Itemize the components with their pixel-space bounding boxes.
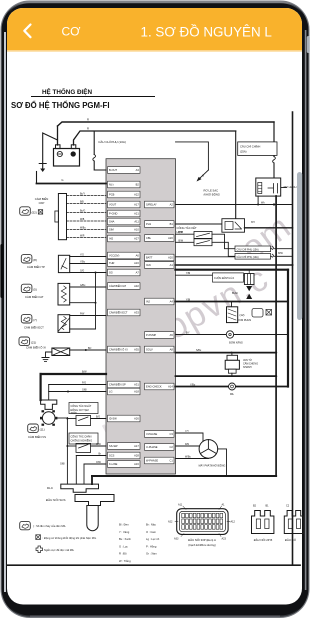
svg-text:(7): (7) — [33, 318, 37, 322]
svg-text:VAN TỪ: VAN TỪ — [243, 359, 252, 362]
svg-text:CẦM CHỪNG: CẦM CHỪNG — [243, 363, 258, 366]
svg-text:G/Bl: G/Bl — [82, 388, 87, 391]
svg-text:S/RELAY: S/RELAY — [146, 203, 157, 207]
svg-text:G/Bu: G/Bu — [80, 285, 86, 287]
svg-text:CẢM BIẾN TP: CẢM BIẾN TP — [27, 264, 45, 269]
svg-text:CẢM BIẾN ECT: CẢM BIẾN ECT — [24, 325, 44, 330]
svg-text:IGN: IGN — [146, 263, 151, 267]
svg-text:1. SƠ ĐỒ NGUYÊN L: 1. SƠ ĐỒ NGUYÊN L — [141, 25, 272, 40]
svg-text:LG: LG — [109, 390, 112, 394]
svg-text:N(-): N(-) — [109, 183, 114, 187]
svg-text:CƠ: CƠ — [62, 25, 82, 39]
svg-text:V-PHASE: V-PHASE — [146, 432, 158, 436]
svg-text:A12: A12 — [231, 521, 236, 524]
svg-text:W/Bu: W/Bu — [80, 228, 86, 230]
svg-text:CUỘN ĐÁNH LỬA: CUỘN ĐÁNH LỬA — [214, 277, 235, 280]
svg-text:C1: C1 — [169, 459, 173, 463]
svg-text:R : Đỏ: R : Đỏ — [119, 552, 127, 556]
svg-text:A26: A26 — [134, 417, 139, 421]
svg-text:THR: THR — [109, 261, 114, 265]
svg-text:(12): (12) — [240, 313, 245, 317]
svg-text:A3: A3 — [136, 168, 140, 172]
svg-text:SIM: SIM — [109, 228, 114, 232]
svg-text:R/N: R/N — [185, 443, 189, 446]
svg-text:Y/Bl: Y/Bl — [186, 298, 191, 301]
svg-text:S/Bu: S/Bu — [196, 349, 202, 352]
svg-text:) : Số lần nháy của đèn MIL: ) : Số lần nháy của đèn MIL — [33, 524, 66, 528]
svg-text:A20: A20 — [168, 256, 173, 260]
svg-text:CÔNG TẮC NGẮT: CÔNG TẮC NGẮT — [71, 405, 92, 408]
svg-text:CẦU CHÌ PHỤ (15A): CẦU CHÌ PHỤ (15A) — [237, 249, 259, 252]
svg-text:B/J: B/J — [88, 348, 91, 350]
svg-text:B/B: B/B — [80, 202, 84, 204]
svg-text:A2: A2 — [170, 203, 174, 207]
svg-text:W/R: W/R — [80, 236, 85, 238]
svg-text:A23: A23 — [222, 538, 227, 541]
svg-text:B/W: B/W — [278, 252, 283, 255]
svg-text:SS-SW: SS-SW — [109, 444, 118, 448]
svg-text:SG: SG — [109, 271, 113, 275]
svg-text:CẦU CHÌ PHỤ (10A): CẦU CHÌ PHỤ (10A) — [98, 140, 126, 144]
svg-text:(11): (11) — [40, 428, 45, 432]
svg-text:SƠ ĐỔ HỆ THỐNG PGM-FI: SƠ ĐỔ HỆ THỐNG PGM-FI — [11, 100, 109, 110]
svg-text:CHỐNG NGHIÊNG: CHỐNG NGHIÊNG — [71, 439, 93, 442]
svg-text:U-PHASE: U-PHASE — [146, 445, 158, 449]
svg-text:CÔNG TẮC CHÂN: CÔNG TẮC CHÂN — [71, 435, 92, 438]
svg-text:Y : Vàng: Y : Vàng — [119, 530, 130, 534]
svg-text:ĐẦU NỐI SCS: ĐẦU NỐI SCS — [46, 497, 66, 502]
svg-text:A33: A33 — [174, 538, 179, 541]
svg-text:C3: C3 — [169, 432, 173, 436]
svg-text:Lg : Lục nh: Lg : Lục nh — [146, 537, 160, 541]
svg-text:CẢM BIẾN IAT: CẢM BIẾN IAT — [25, 294, 44, 299]
svg-text:A16: A16 — [134, 261, 139, 265]
svg-text:G/Bl: G/Bl — [60, 463, 65, 466]
svg-text:PCB: PCB — [109, 193, 115, 197]
svg-text:ID-SW: ID-SW — [109, 417, 117, 421]
svg-text:Y/Bu: Y/Bu — [80, 262, 86, 264]
svg-text:ĐẦU NỐI 33P (Đen) A: ĐẦU NỐI 33P (Đen) A — [188, 537, 216, 542]
svg-text:MIL: MIL — [230, 393, 235, 396]
svg-text:W-PHASE: W-PHASE — [146, 459, 158, 463]
svg-text:P : Hồng: P : Hồng — [146, 544, 157, 548]
svg-text:B/W: B/W — [179, 231, 184, 234]
svg-text:G : Lục: G : Lục — [119, 544, 128, 548]
svg-text:C2: C2 — [169, 445, 173, 449]
svg-text:DLC: DLC — [47, 486, 54, 490]
svg-text:KIM PHUN: KIM PHUN — [239, 318, 252, 322]
svg-text:A27: A27 — [134, 237, 139, 241]
svg-text:(Cạnh ECM/lưu dương): (Cạnh ECM/lưu dương) — [188, 543, 216, 547]
svg-text:SCS: SCS — [109, 454, 115, 458]
svg-text:G: G — [202, 174, 204, 178]
svg-text:Y/Bu: Y/Bu — [190, 383, 196, 386]
svg-text:A32: A32 — [134, 284, 139, 288]
svg-text:O/W: O/W — [96, 443, 102, 446]
svg-text:A31: A31 — [134, 383, 139, 387]
svg-text:BATT: BATT — [146, 256, 153, 260]
svg-text:Bu/Y: Bu/Y — [80, 194, 85, 196]
svg-text:BƠM XĂNG: BƠM XĂNG — [229, 342, 243, 345]
svg-text:A10: A10 — [134, 228, 139, 232]
svg-text:BUGI: BUGI — [232, 292, 238, 295]
svg-text:W/B: W/B — [80, 219, 85, 221]
svg-text:SOLV: SOLV — [146, 348, 153, 352]
svg-text:O/W: O/W — [96, 461, 102, 464]
svg-text:A17: A17 — [134, 203, 139, 207]
svg-text:B/Y: B/Y — [186, 331, 190, 334]
svg-text:CẦU CHÌ CHÍNH: CẦU CHÌ CHÍNH — [240, 145, 260, 149]
svg-text:A33: A33 — [134, 311, 139, 315]
svg-text:A20: A20 — [168, 236, 173, 240]
svg-text:G: G — [61, 178, 63, 182]
svg-text:SHA: SHA — [109, 220, 115, 224]
svg-text:RƠ LE SẠC: RƠ LE SẠC — [204, 189, 219, 193]
svg-text:Y/Bl: Y/Bl — [186, 272, 191, 275]
svg-text:A11: A11 — [134, 220, 139, 224]
svg-text:IH2: IH2 — [109, 237, 114, 241]
svg-text:O : Cam: O : Cam — [146, 530, 157, 534]
svg-text:PH1: PH1 — [146, 222, 152, 226]
svg-text:P-PUMP: P-PUMP — [146, 333, 156, 337]
svg-text:A16: A16 — [134, 462, 139, 466]
svg-text:R: R — [87, 127, 89, 131]
svg-text:ĐẦU NỐI 2P B: ĐẦU NỐI 2P B — [254, 537, 273, 542]
svg-text:NHANH: NHANH — [243, 366, 252, 369]
svg-text:A14: A14 — [168, 385, 173, 389]
svg-text:A28: A28 — [134, 454, 139, 458]
svg-text:: Động cơ không khởi động khi: : Động cơ không khởi động khi phát hiện … — [43, 536, 97, 540]
svg-text:B2: B2 — [136, 183, 140, 187]
svg-text:A11: A11 — [178, 504, 183, 507]
svg-text:Bu : Xanh: Bu : Xanh — [119, 537, 131, 541]
svg-text:ĐẦU NỐ: ĐẦU NỐ — [285, 537, 297, 542]
svg-text:A35: A35 — [134, 348, 139, 352]
svg-text:Bu/G: Bu/G — [80, 211, 85, 213]
svg-text:A7: A7 — [136, 271, 140, 275]
svg-text:A22: A22 — [168, 521, 173, 524]
svg-text:VCC(5V): VCC(5V) — [109, 254, 120, 258]
svg-text:A1: A1 — [170, 263, 174, 267]
svg-text:(5): (5) — [33, 288, 37, 292]
svg-text:Y/Y: Y/Y — [185, 430, 189, 433]
svg-text:G/O: G/O — [80, 271, 84, 273]
svg-text:P-GND: P-GND — [109, 212, 117, 216]
svg-text:Br: Br — [99, 452, 102, 455]
svg-text:W/Bu: W/Bu — [185, 455, 192, 458]
svg-text:Bl : Đen: Bl : Đen — [119, 523, 129, 527]
svg-text:VOUT: VOUT — [109, 203, 117, 207]
svg-text:P/G: P/G — [82, 381, 86, 384]
svg-text:A6: A6 — [136, 254, 140, 258]
svg-text:A5: A5 — [170, 333, 174, 337]
svg-text:B1: B1 — [170, 222, 174, 226]
svg-text:CBL: CBL — [146, 236, 152, 240]
svg-text:(8): (8) — [33, 258, 37, 262]
svg-text:A4: A4 — [170, 300, 174, 304]
svg-text:CẢM BIẾN Ô XI: CẢM BIẾN Ô XI — [26, 344, 46, 349]
svg-text:RƠ LE CH: RƠ LE CH — [284, 185, 297, 189]
svg-text:A21: A21 — [134, 212, 139, 216]
svg-text:B-OUT: B-OUT — [109, 168, 117, 172]
svg-text:A18: A18 — [134, 390, 139, 394]
svg-text:Br : Nâu: Br : Nâu — [146, 523, 156, 527]
svg-text:ENG-CHECK: ENG-CHECK — [146, 385, 162, 389]
svg-text:CẢM BIẾN VS: CẢM BIẾN VS — [28, 434, 46, 439]
svg-text:THỜI: THỜI — [71, 412, 77, 415]
svg-text:CẦU CHÌ PHỤ (10A): CẦU CHÌ PHỤ (10A) — [237, 256, 259, 259]
svg-text:B/G: B/G — [96, 415, 100, 418]
svg-text:MÁY PHÁT/KHỞI ĐỘNG: MÁY PHÁT/KHỞI ĐỘNG — [199, 464, 226, 467]
svg-text:A17: A17 — [134, 444, 139, 448]
svg-text:Gr : Xám: Gr : Xám — [146, 552, 158, 556]
svg-text:K-LINE: K-LINE — [109, 462, 118, 466]
svg-text:CKP: CKP — [39, 201, 45, 205]
svg-text:Y/G: Y/G — [80, 255, 84, 257]
svg-text:B/W: B/W — [179, 239, 184, 242]
svg-text:B/W: B/W — [82, 371, 87, 374]
svg-text:A22: A22 — [134, 193, 139, 197]
svg-text:B/Y: B/Y — [251, 221, 255, 224]
svg-text:(21): (21) — [31, 341, 36, 345]
svg-text:(25A): (25A) — [240, 150, 247, 154]
svg-text:(52): (52) — [32, 210, 37, 214]
svg-text:R: R — [87, 118, 89, 122]
svg-text:A8: A8 — [170, 348, 174, 352]
